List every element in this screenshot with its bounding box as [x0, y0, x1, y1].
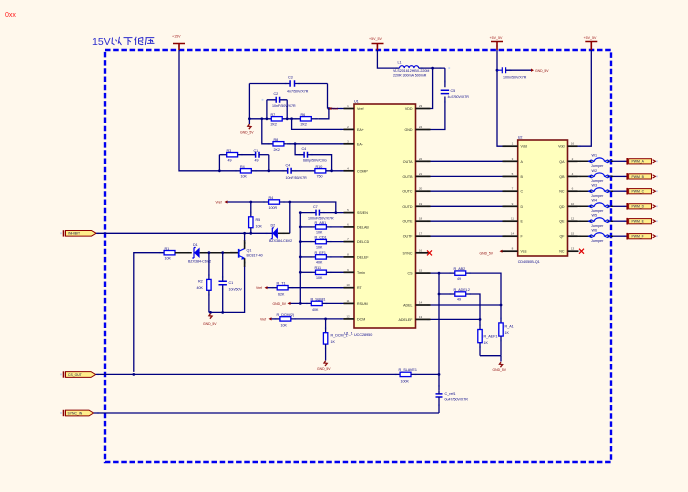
- svg-text:11: 11: [346, 299, 349, 303]
- capacitor C4: [302, 147, 327, 163]
- svg-text:10K: 10K: [165, 257, 172, 261]
- diode D2 zener: [269, 224, 292, 244]
- svg-text:GND_5V: GND_5V: [535, 69, 549, 73]
- svg-text:680p/50V/C0G: 680p/50V/C0G: [303, 159, 327, 163]
- junction DCM row: [324, 318, 327, 321]
- wire C3 right vertical to Vref row: [327, 84, 329, 109]
- junction dots comp row: [248, 117, 251, 120]
- svg-text:+5V_5V: +5V_5V: [584, 36, 597, 40]
- port PWM_A output: [627, 158, 655, 165]
- title 15V以下低压: [92, 36, 155, 48]
- svg-text:OUTE: OUTE: [403, 220, 414, 224]
- svg-text:100K: 100K: [401, 380, 410, 384]
- junction: [330, 169, 333, 172]
- svg-text:QE: QE: [559, 220, 565, 224]
- svg-text:CS: CS: [408, 272, 414, 276]
- svg-text:C3: C3: [288, 76, 293, 80]
- junction: [288, 201, 291, 204]
- port INHIBIT (left input): [64, 230, 97, 236]
- svg-text:49: 49: [457, 277, 461, 281]
- wire Vref row: [228, 202, 336, 213]
- svg-text:19: 19: [419, 202, 423, 206]
- capacitor C3: [249, 76, 327, 94]
- svg-text:COMP: COMP: [357, 169, 368, 173]
- wire ADEL pin row: [431, 304, 502, 306]
- svg-text:Q1: Q1: [247, 248, 252, 252]
- svg-text:GND_5V: GND_5V: [273, 302, 287, 306]
- svg-text:2K2: 2K2: [274, 148, 280, 152]
- wire comp network left vertical: [248, 84, 250, 125]
- junction: [500, 304, 503, 307]
- svg-text:10K: 10K: [316, 231, 323, 235]
- jumper W2: [578, 169, 614, 183]
- junction: [431, 67, 434, 70]
- svg-text:GND_5V: GND_5V: [203, 322, 217, 326]
- svg-text:D1: D1: [193, 243, 198, 247]
- svg-text:W5: W5: [592, 214, 598, 218]
- transistor Q1 BC817: [230, 248, 263, 259]
- svg-text:R10: R10: [316, 165, 323, 169]
- resistor R_SLAVE1: [399, 368, 440, 383]
- svg-text:C1: C1: [254, 149, 259, 153]
- svg-text:R_T1: R_T1: [277, 282, 286, 286]
- junction: [290, 117, 293, 120]
- svg-text:10K: 10K: [316, 276, 323, 280]
- resistor R8: [273, 138, 287, 152]
- jumper W5: [578, 214, 614, 228]
- svg-text:+5V_5V: +5V_5V: [369, 37, 382, 41]
- junction: [299, 302, 302, 305]
- svg-text:16: 16: [571, 142, 575, 146]
- resistor R_T1 (RT): [268, 282, 344, 297]
- op-amp U1 UCC28950 body: [344, 99, 416, 337]
- resistor R3: [219, 149, 237, 163]
- svg-text:21: 21: [419, 172, 423, 176]
- svg-text:13: 13: [571, 247, 575, 251]
- svg-text:4n7/50V/X7R: 4n7/50V/X7R: [287, 90, 309, 94]
- capacitor C7 on SS/EN row: [300, 205, 343, 221]
- resistor R_A1 vertical: [499, 323, 514, 356]
- port PWM_B output: [627, 173, 655, 180]
- resistor R11 (TMIN): [300, 266, 343, 280]
- wire L1 to VDD and C5: [419, 68, 445, 129]
- wire jumper W2 to port: [613, 175, 627, 177]
- svg-text:Jumper: Jumper: [591, 224, 604, 228]
- svg-text:2K2: 2K2: [301, 123, 307, 127]
- svg-text:10K: 10K: [241, 175, 248, 179]
- svg-text:W6: W6: [592, 229, 598, 233]
- wire +5V to L1: [377, 50, 399, 68]
- svg-text:0u47/50V/X7R: 0u47/50V/X7R: [445, 398, 469, 402]
- svg-text:R_EF1: R_EF1: [315, 251, 326, 255]
- wire riser to EA+ pin2: [292, 119, 344, 130]
- svg-text:SYNC: SYNC: [403, 251, 413, 255]
- resistor R_EF1 (DELEF): [300, 251, 343, 265]
- U2 right pin numbers: [571, 142, 575, 251]
- port PWM_F output: [627, 233, 655, 240]
- wire jumper W6 to port: [613, 235, 627, 237]
- left RC block vertical right: [268, 155, 270, 171]
- wire OUTF to U2.F: [431, 235, 503, 237]
- junction: [328, 107, 331, 110]
- svg-text:1K: 1K: [331, 340, 336, 344]
- wire OUTD to U2.D: [431, 205, 503, 207]
- junction pin3 row: [294, 142, 297, 145]
- svg-text:C4: C4: [302, 147, 307, 151]
- svg-text:GND_5V: GND_5V: [480, 251, 494, 255]
- capacitor C5: [441, 89, 470, 99]
- wire CS vertical down: [438, 273, 440, 390]
- svg-text:D2: D2: [271, 224, 276, 228]
- net flag Vref (DCM row): [260, 317, 272, 321]
- svg-text:10nF/50V/X7R: 10nF/50V/X7R: [272, 104, 296, 108]
- svg-text:12: 12: [346, 314, 350, 318]
- junction: [299, 271, 302, 274]
- net flag Vref (RT row): [256, 286, 268, 290]
- junction SS/EN riser: [334, 211, 337, 214]
- port PWM_E output: [627, 218, 655, 225]
- svg-text:+15V: +15V: [172, 35, 181, 39]
- svg-text:U2: U2: [518, 135, 523, 139]
- U2 right pin names: [558, 145, 565, 254]
- capacitor C4b: [286, 164, 315, 181]
- left RC block vertical left: [218, 155, 220, 171]
- svg-text:R11: R11: [315, 266, 322, 270]
- svg-text:QF: QF: [560, 235, 566, 239]
- power +5V (above U2 left): [490, 36, 504, 50]
- svg-text:40K: 40K: [197, 286, 204, 290]
- port PWM_C output: [627, 188, 655, 195]
- buffer U2 CD4050B-Q1 body: [518, 135, 568, 264]
- U2 left pin numbers: [511, 142, 515, 251]
- svg-text:EA-: EA-: [357, 142, 364, 146]
- svg-text:DCM: DCM: [357, 317, 365, 321]
- capacitor C2: [267, 92, 296, 108]
- junction: [286, 117, 289, 120]
- svg-text:C7: C7: [313, 205, 318, 209]
- resistor R6: [300, 113, 318, 127]
- svg-text:11: 11: [511, 217, 514, 221]
- svg-text:INHIBIT: INHIBIT: [68, 232, 80, 236]
- wire +5V right stem to U2 Vdd: [578, 50, 592, 146]
- svg-text:RSUM: RSUM: [357, 302, 368, 306]
- svg-text:Jumper: Jumper: [591, 164, 604, 168]
- port CS_OUT: [64, 371, 96, 377]
- power +5V (above U1): [369, 37, 384, 50]
- capacitor C1 vertical: [219, 253, 243, 313]
- svg-text:UCC28950: UCC28950: [354, 333, 372, 337]
- diode D1 zener: [188, 243, 211, 263]
- svg-text:10K: 10K: [316, 245, 323, 249]
- svg-text:R3: R3: [227, 149, 232, 153]
- wire riser from row to EA- pin3: [262, 119, 344, 144]
- svg-text:R_SLAVE1: R_SLAVE1: [399, 368, 417, 372]
- svg-text:49: 49: [228, 159, 232, 163]
- svg-text:R_AB1: R_AB1: [315, 221, 327, 225]
- resistor R5 vertical: [249, 202, 263, 233]
- svg-text:U1: U1: [354, 99, 359, 103]
- svg-text:DELEF: DELEF: [357, 255, 369, 259]
- svg-text:SS/EN: SS/EN: [357, 211, 368, 215]
- svg-text:10K: 10K: [256, 225, 263, 229]
- resistor R_SUM1 (RSUM): [291, 297, 344, 312]
- svg-text:Vdd: Vdd: [521, 145, 527, 149]
- svg-text:RT: RT: [357, 286, 363, 290]
- svg-text:OUTA: OUTA: [403, 160, 413, 164]
- svg-text:QA: QA: [559, 160, 565, 164]
- junction dots comp row2: [218, 169, 221, 172]
- svg-text:C5: C5: [451, 89, 456, 93]
- svg-text:C: C: [521, 190, 524, 194]
- wire CS row: [431, 273, 502, 323]
- resistor R2 vertical: [197, 253, 212, 313]
- wire +5V left stem to U2 Vdd pin: [497, 50, 503, 146]
- power +15V (left): [172, 35, 185, 51]
- svg-text:R_DCM(2): R_DCM(2): [277, 313, 295, 317]
- svg-text:R5: R5: [256, 218, 261, 222]
- wire riser pin3 to C4 row: [295, 144, 332, 171]
- resistor R_AEF1 vertical: [478, 330, 498, 356]
- svg-text:Vref: Vref: [357, 107, 363, 111]
- svg-text:10nF/50/X7R: 10nF/50/X7R: [286, 176, 308, 180]
- svg-text:Jumper: Jumper: [591, 209, 604, 213]
- wire D2 to R4 riser: [278, 232, 290, 234]
- wire C2 side verticals: [267, 100, 287, 119]
- svg-text:62K: 62K: [278, 292, 285, 296]
- U2 right pin stubs: [568, 146, 579, 251]
- U1 left pin names: [357, 107, 370, 321]
- svg-text:OUTC: OUTC: [402, 190, 413, 194]
- svg-text:+5V_5V: +5V_5V: [490, 36, 503, 40]
- port PWM_D output: [627, 203, 655, 210]
- no-connect X on U2 NC pin: [579, 249, 584, 254]
- svg-text:R6: R6: [301, 113, 306, 117]
- junction: [299, 211, 302, 214]
- svg-text:24: 24: [419, 125, 423, 129]
- svg-text:ADEL: ADEL: [403, 304, 412, 308]
- ground GND_5V under Q1 network: [203, 314, 217, 326]
- svg-text:750: 750: [317, 175, 323, 179]
- svg-text:D: D: [521, 205, 524, 209]
- junction: [438, 293, 441, 296]
- svg-text:13: 13: [419, 315, 423, 319]
- svg-text:100n/50V/X7R: 100n/50V/X7R: [503, 76, 527, 80]
- wire Q1 emitter down / gnd row: [244, 258, 246, 267]
- svg-text:QB: QB: [559, 175, 565, 179]
- svg-text:Vdd: Vdd: [558, 145, 564, 149]
- wire jumper W1 to port: [613, 160, 627, 162]
- svg-text:PWM_E: PWM_E: [632, 220, 645, 224]
- junction: [209, 311, 212, 314]
- jumper W6: [578, 229, 614, 243]
- junction: [299, 240, 302, 243]
- svg-text:VDD: VDD: [405, 107, 413, 111]
- junction: [438, 373, 441, 376]
- svg-text:BZX384-C6V2: BZX384-C6V2: [269, 239, 292, 243]
- wire OUTA to U2.A: [431, 160, 503, 162]
- svg-text:23: 23: [419, 104, 423, 108]
- svg-text:R4: R4: [240, 165, 245, 169]
- svg-text:U1_1: U1_1: [344, 332, 353, 336]
- svg-text:R_A1: R_A1: [505, 325, 514, 329]
- svg-text:R_AB2: R_AB2: [454, 267, 466, 271]
- svg-text:R4: R4: [269, 196, 274, 200]
- wire ADELEF pin row: [431, 318, 481, 320]
- svg-text:QD: QD: [559, 205, 565, 209]
- svg-text:40K: 40K: [316, 261, 323, 265]
- net flag Vref (R4 row): [216, 200, 228, 204]
- capacitor C6: [497, 67, 531, 79]
- svg-text:18: 18: [419, 217, 423, 221]
- ground GND_5V under dividers: [493, 362, 507, 372]
- resistor R_AB1 (DELAB): [300, 221, 343, 235]
- junction: [299, 226, 302, 229]
- svg-text:NC: NC: [559, 190, 565, 194]
- junction: [260, 117, 263, 120]
- junction: [243, 232, 246, 235]
- svg-text:C4: C4: [286, 164, 291, 168]
- svg-text:W2: W2: [592, 169, 598, 173]
- svg-text:R8: R8: [274, 138, 279, 142]
- svg-text:R2: R2: [198, 280, 203, 284]
- svg-text:20: 20: [419, 187, 423, 191]
- svg-text:R1: R1: [165, 247, 170, 251]
- U2 left pin stubs: [503, 146, 518, 251]
- svg-text:SYNC_IN: SYNC_IN: [68, 411, 83, 415]
- svg-text:C1: C1: [229, 281, 234, 285]
- svg-text:Vref: Vref: [216, 200, 222, 204]
- svg-text:BZX384-C6V2: BZX384-C6V2: [188, 260, 211, 264]
- resistor R_ADEL2: [454, 288, 470, 302]
- net flag GND_5V (RSUM row): [273, 302, 291, 306]
- junction: [266, 117, 269, 120]
- svg-text:GND_5V: GND_5V: [493, 368, 507, 372]
- svg-text:17: 17: [419, 232, 423, 236]
- junction: [496, 69, 499, 72]
- wire ADEL divider row: [439, 294, 480, 330]
- U2 left pin names: [521, 145, 527, 254]
- wire jumper W4 to port: [613, 205, 627, 207]
- wire Q1 collector up to inhibit row: [244, 240, 246, 249]
- svg-text:22: 22: [419, 157, 423, 161]
- svg-text:12: 12: [571, 217, 575, 221]
- svg-text:W3: W3: [592, 184, 598, 188]
- svg-text:Jumper: Jumper: [591, 179, 604, 183]
- wire D1 to Q1 base: [200, 252, 231, 254]
- svg-text:PWM_D: PWM_D: [632, 205, 645, 209]
- svg-text:1K: 1K: [505, 331, 510, 335]
- junction: [299, 256, 302, 259]
- junction: [132, 373, 135, 376]
- svg-text:14: 14: [511, 232, 515, 236]
- svg-text:R_ADEL2: R_ADEL2: [454, 288, 470, 292]
- svg-text:Vss: Vss: [521, 250, 527, 254]
- U1 left pin stubs: [344, 109, 355, 319]
- junction R5 top: [249, 201, 252, 204]
- wire OUTE to U2.E: [431, 220, 503, 222]
- junction R2 top / C1 top: [208, 251, 211, 254]
- svg-text:15V: 15V: [92, 36, 111, 48]
- svg-text:GND_5V: GND_5V: [317, 367, 331, 371]
- svg-text:OUTF: OUTF: [403, 235, 414, 239]
- svg-text:49: 49: [457, 298, 461, 302]
- capacitor C_ref1 in CS vertical: [436, 390, 469, 413]
- jumper W4: [578, 199, 614, 213]
- svg-text:1K: 1K: [484, 341, 489, 345]
- power +5V (above U2 right): [584, 36, 598, 50]
- resistor R_DCM(2) (DCM row): [272, 313, 344, 328]
- dashed region border: [105, 50, 611, 462]
- svg-text:BC817-40: BC817-40: [247, 254, 263, 258]
- inductor L1: [393, 61, 429, 78]
- junction CS row: [438, 272, 441, 275]
- wire SYNC_IN row: [94, 412, 439, 414]
- svg-text:GND: GND: [405, 128, 413, 132]
- svg-text:Jumper: Jumper: [591, 239, 604, 243]
- svg-text:40K: 40K: [312, 308, 319, 312]
- resistor R4: [269, 196, 280, 210]
- svg-text:10: 10: [346, 283, 350, 287]
- svg-text:10n/50V: 10n/50V: [229, 287, 243, 291]
- svg-text:PWM_A: PWM_A: [632, 160, 645, 164]
- junction: [479, 318, 482, 321]
- svg-text:14: 14: [419, 301, 423, 305]
- wire OUTC to U2.C: [431, 190, 503, 192]
- svg-text:DELAB: DELAB: [357, 225, 369, 229]
- svg-text:10: 10: [571, 202, 575, 206]
- junction: [267, 169, 270, 172]
- svg-text:16: 16: [419, 248, 423, 252]
- svg-text:15: 15: [571, 232, 575, 236]
- wire OUTB to U2.B: [431, 175, 503, 177]
- svg-text:2K2: 2K2: [271, 123, 277, 127]
- wire jumper W3 to port: [613, 190, 627, 192]
- resistor R_AB2 (CS row): [454, 267, 466, 281]
- net flag GND_5V at U2 Vss: [480, 250, 503, 256]
- svg-text:4u7/50V/X7R: 4u7/50V/X7R: [448, 95, 470, 99]
- wire CS_OUT row: [96, 373, 401, 375]
- svg-text:220R 300mA 500mR: 220R 300mA 500mR: [393, 74, 427, 78]
- U1 right pin numbers: [419, 104, 423, 319]
- svg-text:ADELEF: ADELEF: [399, 318, 414, 322]
- wire jumper W5 to port: [613, 220, 627, 222]
- svg-text:PWM_F: PWM_F: [632, 235, 644, 239]
- svg-text:Vref: Vref: [256, 286, 262, 290]
- resistor R10: [315, 165, 344, 179]
- svg-text:DELCD: DELCD: [357, 240, 370, 244]
- wire gnd bus vertical: [299, 213, 301, 304]
- svg-text:100R: 100R: [269, 206, 278, 210]
- net flag GND_5V at C6: [531, 69, 549, 73]
- jumper W1: [578, 154, 614, 168]
- svg-text:PWM_B: PWM_B: [632, 175, 645, 179]
- svg-text:CS_OUT: CS_OUT: [68, 373, 82, 377]
- svg-text:15: 15: [419, 269, 423, 273]
- svg-text:L1: L1: [398, 61, 402, 65]
- svg-text:10K: 10K: [281, 324, 288, 328]
- wire +15V rail down to comp network: [179, 50, 219, 171]
- wire row y118.8: [249, 109, 343, 119]
- resistor R_CD1 (DELCD): [300, 236, 343, 250]
- resistor R4b: [219, 165, 287, 179]
- resistor R7: [271, 113, 283, 127]
- svg-text:CD4050B-Q1: CD4050B-Q1: [518, 260, 540, 264]
- svg-text:Jumper: Jumper: [591, 194, 604, 198]
- svg-text:GND_5V: GND_5V: [240, 131, 254, 135]
- capacitor C1a: [238, 149, 269, 163]
- wire divider bottoms join: [480, 356, 501, 362]
- port SYNC_IN: [64, 410, 94, 416]
